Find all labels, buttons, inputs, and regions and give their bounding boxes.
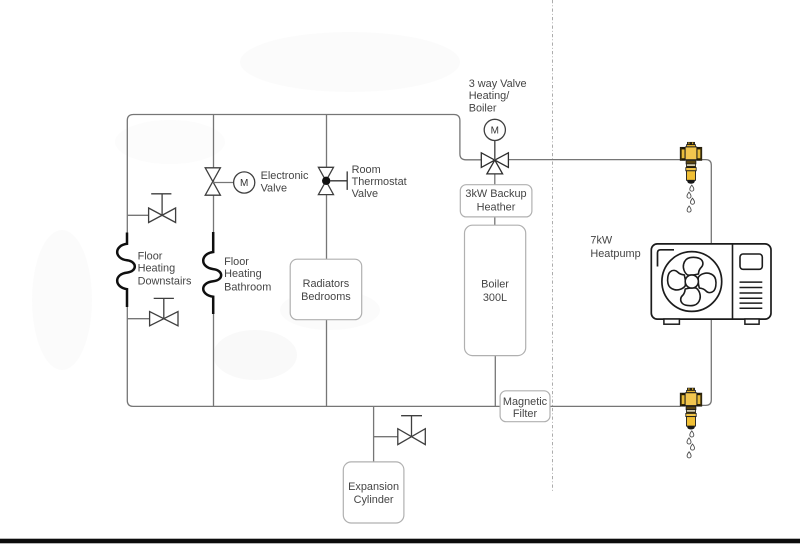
wire heatpump bottom to bottom vent	[702, 319, 712, 406]
svg-text:Bathroom: Bathroom	[224, 281, 271, 293]
wire left top valve stub	[127, 214, 148, 216]
wire main loop (top pipe, left pipe, bottom pipe)	[127, 115, 481, 234]
svg-text:Filter: Filter	[513, 408, 538, 420]
svg-text:7kW: 7kW	[590, 235, 613, 247]
svg-text:Thermostat: Thermostat	[352, 176, 407, 188]
valve electronic (motorised)	[205, 168, 220, 195]
motor M 3-way valve	[484, 119, 505, 140]
valve left bottom (gate valve)	[150, 298, 178, 325]
label 3 way valve	[469, 78, 527, 114]
box expansion cylinder	[343, 462, 404, 523]
svg-text:Floor: Floor	[224, 256, 249, 268]
air vent bottom (auto air vent)	[680, 388, 701, 458]
bottom black bar	[0, 539, 800, 544]
svg-text:M: M	[240, 178, 248, 189]
svg-text:Expansion: Expansion	[348, 481, 399, 493]
box radiators bedrooms	[290, 259, 362, 320]
label 7kW heatpump	[590, 235, 640, 260]
coil floor heating downstairs	[117, 233, 135, 308]
svg-text:Floor: Floor	[138, 251, 163, 263]
valve left top (gate valve)	[149, 194, 176, 223]
svg-text:Boiler: Boiler	[469, 102, 497, 114]
svg-text:Valve: Valve	[352, 188, 378, 200]
wire 3-way valve to right (supply to heatpump)	[508, 159, 680, 161]
svg-text:Heating/: Heating/	[469, 90, 511, 102]
svg-text:Magnetic: Magnetic	[503, 396, 548, 408]
label floor heating downstairs	[138, 251, 192, 288]
wire top-right corner down to heatpump	[702, 160, 712, 244]
wire 3kW heater to boiler	[494, 217, 496, 225]
svg-text:Downstairs: Downstairs	[138, 275, 192, 287]
fan blades	[668, 257, 716, 305]
svg-text:Boiler: Boiler	[481, 278, 509, 290]
svg-text:Bedrooms: Bedrooms	[301, 291, 351, 303]
svg-text:Heather: Heather	[477, 201, 516, 213]
label room thermostat valve	[352, 164, 407, 200]
wire left bottom valve stub	[127, 318, 149, 320]
svg-text:Heatpump: Heatpump	[590, 248, 640, 260]
label electronic valve	[261, 170, 309, 195]
svg-text:3 way Valve: 3 way Valve	[469, 78, 527, 90]
wire bathroom riser	[213, 115, 215, 233]
box 3kW backup heather	[460, 185, 532, 217]
svg-text:M: M	[491, 126, 499, 137]
svg-text:Electronic: Electronic	[261, 170, 309, 182]
wire expansion cylinder drop	[373, 406, 375, 462]
wire boiler to bottom pipe	[494, 356, 496, 407]
coil floor heating bathroom	[203, 232, 221, 314]
box magnetic filter	[500, 391, 550, 422]
svg-text:Heating: Heating	[138, 262, 176, 274]
wire 3-way valve motor stem	[494, 141, 496, 160]
valve expansion (gate valve)	[398, 416, 426, 445]
label floor heating bathroom	[224, 256, 271, 294]
valve room thermostat	[318, 167, 347, 194]
wire 3-way valve to 3kW heater	[494, 174, 496, 185]
air vent top (auto air vent)	[680, 142, 701, 212]
motor M electronic valve	[234, 172, 255, 193]
svg-text:300L: 300L	[483, 292, 507, 304]
3-way valve	[481, 153, 508, 174]
box boiler 300L	[465, 225, 526, 355]
svg-text:Cylinder: Cylinder	[354, 494, 394, 506]
svg-text:3kW Backup: 3kW Backup	[465, 188, 526, 200]
svg-text:Valve: Valve	[261, 183, 287, 195]
indoor/outdoor separator dashed line	[552, 0, 554, 492]
svg-text:Radiators: Radiators	[303, 278, 350, 290]
svg-text:Room: Room	[352, 164, 381, 176]
wire radiators riser	[326, 115, 328, 407]
heatpump unit	[651, 244, 771, 324]
wire electronic valve to motor	[213, 182, 234, 184]
wire expansion valve stub	[374, 436, 398, 438]
svg-text:Heating: Heating	[224, 268, 262, 280]
